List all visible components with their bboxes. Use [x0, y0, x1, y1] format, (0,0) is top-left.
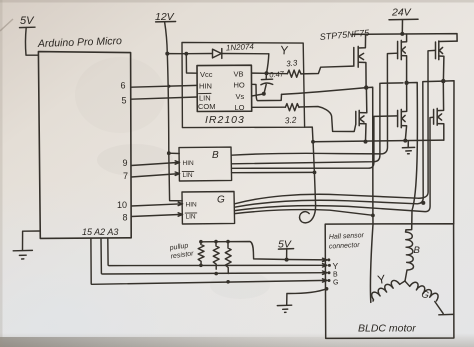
- svg-text:7: 7: [123, 171, 128, 181]
- label STP75NF75: [319, 28, 370, 42]
- wire B driver out2 to node B phase: [232, 83, 403, 164]
- transistor Q6 (G low): [434, 81, 444, 140]
- 5V supply (Arduino): [20, 15, 38, 55]
- node motor star: [404, 280, 406, 282]
- svg-text:1N2074: 1N2074: [226, 42, 255, 52]
- wire 12V to diode: [167, 52, 212, 56]
- wire pin7 to B driver LIN: [131, 172, 179, 177]
- svg-text:Vs: Vs: [236, 92, 245, 101]
- transistor Q3 (B high): [398, 34, 407, 82]
- svg-text:9: 9: [123, 158, 128, 168]
- driver module Y outer box: [182, 42, 313, 141]
- wire ground rail (bridge): [311, 139, 444, 144]
- wire G driver out2 to node G phase: [235, 81, 444, 207]
- wire G driver out1 to Q5 gate: [235, 50, 436, 203]
- wire A2 to hall B: [101, 238, 327, 274]
- BLDC motor box M1: [325, 224, 454, 339]
- wire G phase feed to motor: [443, 81, 454, 224]
- svg-text:Y: Y: [280, 43, 289, 58]
- svg-text:5: 5: [122, 96, 127, 106]
- wire pin10 to G driver HIN: [131, 202, 182, 206]
- svg-text:HIN: HIN: [183, 160, 195, 167]
- svg-text:LIN: LIN: [186, 214, 196, 221]
- diode D1 1N2074: [213, 42, 269, 58]
- wire B driver out3 to Q4 gate: [232, 116, 398, 168]
- svg-text:LIN: LIN: [183, 172, 193, 179]
- svg-text:COM: COM: [198, 102, 216, 111]
- wire Vcc branch: [186, 54, 197, 73]
- transistor Q1 (Y high): [354, 34, 366, 86]
- transistor Q5 (G high): [436, 41, 458, 81]
- svg-text:B: B: [212, 150, 219, 161]
- inductor L1 (B winding): [405, 230, 421, 281]
- wire Y phase feed to motor: [366, 87, 373, 302]
- wire Vs to cap node: [252, 92, 266, 96]
- node G phase: [441, 79, 445, 83]
- op-amp/driver IC U4 IR2103: [197, 65, 252, 126]
- ground (hall GND): [277, 305, 291, 312]
- resistor R5 pullup: [225, 240, 231, 284]
- svg-text:Vcc: Vcc: [200, 70, 213, 79]
- svg-text:B: B: [333, 272, 338, 279]
- node B phase: [404, 81, 408, 85]
- wire B phase feed to motor: [406, 83, 417, 230]
- wire 15 to hall G: [91, 238, 327, 284]
- transistor Q2 (Y low): [356, 88, 367, 142]
- wire diode to VB node: [267, 54, 269, 73]
- wire pullup rail to 5V and hall: [201, 242, 327, 262]
- wire Vs phase line to node Y: [282, 88, 367, 95]
- svg-text:G: G: [333, 280, 338, 287]
- wire B driver out4 (curled end): [232, 142, 317, 223]
- svg-text:6: 6: [121, 81, 126, 91]
- wire 12V rail down to driver blocks: [167, 54, 182, 201]
- inductor L3 (G winding): [405, 280, 454, 315]
- inductor L2 (Y winding): [369, 272, 405, 301]
- 12V supply: [155, 11, 176, 56]
- wire hall GND to ground: [287, 287, 329, 305]
- svg-text:Y: Y: [333, 261, 339, 271]
- svg-text:8: 8: [123, 213, 128, 223]
- wire pin6 to HIN (IR2103): [131, 85, 197, 88]
- svg-text:5V: 5V: [20, 15, 35, 27]
- svg-text:HO: HO: [234, 81, 245, 90]
- driver block U3 G: [182, 192, 235, 225]
- capacitor C1 0.47: [261, 69, 285, 93]
- wire 24V rail: [352, 34, 457, 42]
- svg-text:BLDC motor: BLDC motor: [358, 323, 416, 335]
- svg-text:G: G: [217, 195, 225, 206]
- resistor R1 3.3 (high-side gate): [267, 58, 353, 77]
- resistor R2 3.2 (low-side gate): [252, 104, 356, 132]
- node Y phase: [364, 85, 368, 89]
- svg-text:LIN: LIN: [199, 94, 211, 103]
- svg-text:10: 10: [117, 200, 127, 210]
- svg-text:15 A2 A3: 15 A2 A3: [82, 227, 118, 237]
- resistor R4 pullup: [213, 240, 219, 276]
- svg-text:3.2: 3.2: [284, 114, 297, 125]
- wire pin8 to G driver LIN: [131, 213, 182, 217]
- label pullup resistor: [168, 242, 194, 260]
- 5V supply (hall): [278, 239, 294, 262]
- 24V supply: [389, 7, 418, 36]
- svg-text:HIN: HIN: [199, 82, 212, 91]
- svg-text:IR2103: IR2103: [205, 114, 245, 126]
- svg-text:HIN: HIN: [186, 202, 198, 209]
- wire B driver out1 to Q3 gate: [232, 53, 398, 155]
- Arduino Pro Micro U1: [37, 35, 132, 238]
- wire G driver out4 to node Y feed: [235, 210, 375, 218]
- ground (bridge GND): [402, 141, 414, 154]
- svg-text:B: B: [414, 245, 421, 256]
- svg-text:VB: VB: [234, 70, 244, 79]
- transistor Q4 (B low): [398, 83, 407, 140]
- ground (Arduino GND): [13, 231, 40, 259]
- wire HO loop: [252, 84, 282, 100]
- svg-text:24V: 24V: [391, 7, 412, 19]
- wire pin5 to LIN (IR2103): [131, 97, 197, 99]
- svg-text:LO: LO: [235, 103, 245, 112]
- node VB junction: [252, 71, 269, 75]
- wire A3 to hall Y: [108, 238, 327, 267]
- svg-text:3.3: 3.3: [286, 58, 299, 68]
- driver block U2 B: [179, 147, 232, 181]
- hall sensor connector J1: [327, 232, 364, 286]
- svg-text:0.47: 0.47: [269, 69, 285, 79]
- resistor R3 pullup: [198, 240, 204, 267]
- wire G driver out3 to Q6 gate: [235, 117, 434, 211]
- wire pin9 to B driver HIN: [131, 161, 179, 166]
